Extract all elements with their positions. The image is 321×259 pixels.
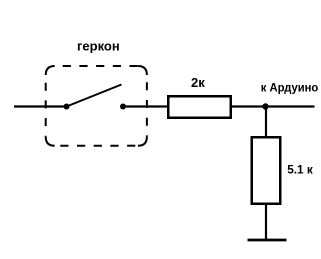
reed switch dashed enclosure bottom edge	[55, 145, 138, 147]
reed switch dashed enclosure top edge	[55, 65, 138, 67]
resistor R2 body	[252, 137, 281, 204]
reed switch dashed enclosure top-right corner arc	[138, 66, 147, 75]
reed switch dashed enclosure bottom-left corner arc	[46, 137, 55, 146]
reed switch dashed enclosure top-left corner arc	[46, 66, 55, 75]
svg-text:к Ардуино: к Ардуино	[261, 81, 319, 95]
node right contact dot	[120, 104, 126, 110]
ground	[248, 239, 287, 242]
wire W1 left lead into reed switch	[14, 105, 67, 107]
reed switch dashed enclosure bottom-right corner arc	[138, 137, 147, 146]
switch SW1 lever (open contact)	[67, 85, 122, 107]
node left contact dot	[64, 104, 70, 110]
wire W5 resistor R2 to ground	[265, 203, 267, 240]
reed switch dashed enclosure left edge	[45, 75, 47, 137]
svg-text:геркон: геркон	[77, 39, 120, 54]
reed switch dashed enclosure right edge	[146, 75, 148, 137]
resistor R1 body	[168, 96, 231, 118]
node junction A	[262, 103, 268, 109]
wire W3 resistor R1 to junction and output	[232, 105, 315, 107]
svg-text:5.1 к: 5.1 к	[287, 163, 313, 177]
svg-text:2к: 2к	[191, 75, 205, 90]
wire W4 junction down to resistor R2	[265, 107, 267, 138]
wire W2 switch to resistor R1	[123, 105, 168, 107]
